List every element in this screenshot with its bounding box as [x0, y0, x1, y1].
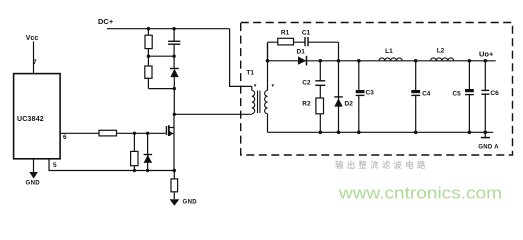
node junction rail R — [133, 169, 136, 172]
svg-text:R1: R1 — [281, 29, 290, 36]
capacitor C2 — [319, 61, 321, 81]
wire pin 5 from IC bottom — [49, 159, 174, 171]
node junction drain — [173, 113, 176, 116]
node junction rail snubber C — [172, 27, 175, 30]
svg-text:L2: L2 — [437, 48, 445, 55]
resistor R2 — [316, 98, 324, 114]
node junction rail zener — [146, 169, 149, 172]
capacitor C5 electrolytic — [468, 61, 470, 89]
svg-text:Vcc: Vcc — [26, 35, 39, 42]
node junction rail C5 — [468, 131, 472, 135]
node junction rail source — [173, 169, 176, 172]
node junction rail C6 — [484, 131, 488, 135]
resistor R1 — [278, 38, 294, 45]
transformer polarity dot primary — [254, 84, 257, 87]
svg-text:C6: C6 — [490, 90, 499, 97]
node junction between snubber resistors — [147, 55, 150, 58]
svg-text:T1: T1 — [246, 70, 254, 77]
wire output bottom rail — [268, 131, 494, 133]
capacitor C3 electrolytic — [358, 61, 360, 90]
svg-text:6: 6 — [63, 134, 67, 141]
svg-text:C5: C5 — [452, 91, 461, 98]
node junction rail C4 — [414, 131, 418, 135]
svg-text:GND: GND — [183, 200, 198, 206]
node junction C4 top — [414, 59, 418, 63]
svg-text:D1: D1 — [297, 49, 306, 56]
capacitor C1 — [304, 37, 306, 46]
node junction on pin6 wire 2 — [146, 132, 149, 135]
wire vertical resistor branch — [133, 133, 135, 170]
svg-text:UC3842: UC3842 — [17, 116, 44, 123]
resistor vertical below pin6 wire — [131, 151, 138, 165]
resistor snubber lower — [147, 56, 149, 88]
svg-text:7: 7 — [33, 59, 37, 66]
diode zener near pin5 rail — [144, 155, 153, 163]
resistor snubber upper — [147, 29, 149, 57]
transformer core — [257, 91, 259, 114]
ground IC GND arrow — [29, 172, 38, 179]
node junction rail snubber R — [147, 27, 150, 30]
svg-text:D2: D2 — [345, 101, 354, 108]
node junction C2 branch — [319, 59, 323, 63]
wire drain line to primary — [174, 113, 252, 115]
svg-text:C2: C2 — [302, 79, 311, 86]
wire DC+ top rail — [107, 28, 230, 30]
transistor Q1 MOSFET — [165, 126, 167, 135]
node junction rail D2 — [337, 131, 341, 135]
wire output main (y=60.8) — [268, 60, 496, 62]
node junction on pin6 wire — [133, 132, 136, 135]
node junction rail C3 — [357, 131, 361, 135]
svg-text:L1: L1 — [385, 48, 393, 55]
diode clamp (points up) — [170, 68, 179, 70]
node junction C6 top — [484, 59, 488, 63]
wire link snubber bottom — [148, 88, 174, 90]
wire zener branch — [147, 133, 149, 170]
node junction secondary top — [266, 59, 270, 63]
svg-text:C1: C1 — [302, 29, 311, 36]
svg-text:C3: C3 — [366, 90, 375, 97]
resistor R gate (horizontal) — [99, 130, 117, 136]
wire link mid snubber — [148, 55, 174, 57]
svg-text:输出整流滤波电路: 输出整流滤波电路 — [335, 160, 429, 170]
diode D2 (points up) — [338, 61, 340, 133]
transformer T1 primary winding — [251, 86, 253, 90]
svg-text:GND A: GND A — [478, 144, 499, 150]
node junction rail C2R2 — [319, 131, 323, 135]
node junction D2 top — [337, 59, 341, 63]
svg-text:5: 5 — [53, 162, 57, 169]
dashed box output section — [241, 23, 513, 156]
wire drain/source vertical — [173, 114, 175, 170]
resistor sense below source — [173, 171, 175, 200]
svg-text:www.cntronics.com: www.cntronics.com — [338, 184, 502, 203]
svg-text:DC+: DC+ — [98, 17, 114, 26]
wire DC+ down to primary — [230, 29, 252, 87]
node junction C5 top — [468, 59, 472, 63]
ground GND A — [484, 132, 486, 137]
node junction C3 top — [357, 59, 361, 63]
svg-text:R2: R2 — [302, 101, 311, 108]
transformer polarity dot secondary — [272, 84, 275, 87]
capacitor C4 electrolytic — [415, 61, 417, 90]
svg-text:C4: C4 — [422, 91, 431, 98]
node junction snubber bottom — [173, 87, 176, 90]
svg-text:GND: GND — [26, 181, 41, 187]
wire RC top branch — [268, 41, 306, 43]
node junction snubber mid — [172, 55, 175, 58]
capacitor C6 — [484, 61, 486, 91]
capacitor snubber — [173, 29, 175, 42]
ground GND arrow at sense resistor — [170, 199, 180, 205]
wire IC GND — [33, 159, 35, 173]
svg-text:Uo+: Uo+ — [479, 49, 494, 58]
transformer T1 secondary winding — [267, 43, 269, 91]
wire pin 6 to gate — [60, 132, 165, 134]
wire Vcc to IC pin 7 — [33, 42, 35, 74]
op-amp U1 UC3842 box — [14, 74, 61, 159]
